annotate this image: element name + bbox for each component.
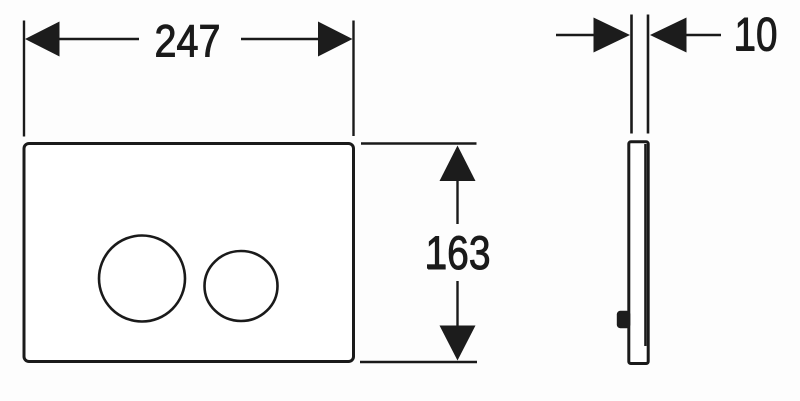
- foot serif of digit 1 in 163: [427, 264, 446, 268]
- height dimension line lower segment: [456, 281, 458, 327]
- height extension line top: [361, 142, 477, 144]
- thickness arrowhead pointing left: [650, 18, 687, 53]
- height arrowhead down: [440, 326, 476, 361]
- svg-text:163: 163: [426, 226, 491, 279]
- thickness dimension line right segment: [686, 34, 721, 36]
- width arrowhead left: [25, 22, 60, 57]
- svg-text:10: 10: [735, 8, 778, 61]
- width extension line left: [23, 21, 25, 137]
- height arrowhead up: [440, 146, 476, 182]
- height extension line bottom: [360, 361, 477, 363]
- height dimension line upper segment: [456, 180, 458, 224]
- width dimension line left segment: [58, 38, 139, 40]
- foot serif of digit 1 in 10: [736, 46, 754, 50]
- small flush button circle: [205, 251, 278, 321]
- side view mounting clip tab: [617, 311, 631, 328]
- large flush button circle: [99, 236, 185, 322]
- thickness extension line left: [630, 15, 633, 134]
- plate side view inner edge line: [644, 144, 646, 346]
- width extension line right: [352, 21, 354, 137]
- thickness arrowhead pointing right: [594, 18, 631, 53]
- width dimension line right segment: [241, 38, 319, 40]
- plate front view outline: [24, 144, 354, 362]
- thickness extension line right: [647, 15, 650, 134]
- width arrowhead right: [318, 22, 353, 57]
- svg-text:247: 247: [155, 15, 221, 66]
- thickness dimension line left segment: [556, 34, 594, 36]
- plate side view outline: [629, 142, 648, 364]
